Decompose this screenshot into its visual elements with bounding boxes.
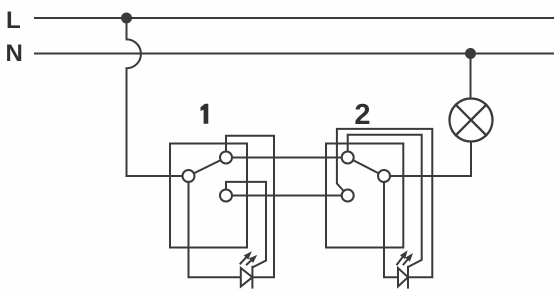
wire S2 lower terminal loop to LED D2 cathode <box>337 129 432 277</box>
label 1 (switch 1) <box>201 104 209 124</box>
LED D1 cathode bar <box>251 267 253 288</box>
junction on L line <box>121 13 132 24</box>
wire S1 upper terminal loop to LED D1 cathode <box>226 136 274 277</box>
switch S2 lever <box>353 160 379 173</box>
wire L line <box>35 17 553 19</box>
switch S1 upper terminal <box>220 152 232 164</box>
svg-text:L: L <box>6 7 21 34</box>
wire lamp to S2 common <box>390 142 471 177</box>
junction on N line <box>465 48 476 59</box>
LED D1 triangle <box>241 268 253 287</box>
wire S1 common to LED D1 anode <box>189 182 240 277</box>
switch S2 body <box>326 144 403 248</box>
svg-text:N: N <box>6 40 23 67</box>
svg-text:2: 2 <box>354 99 370 131</box>
LED D2 cathode bar <box>407 267 409 288</box>
wire L feed down with hop over N to S1 common <box>127 18 183 176</box>
switch S2 common terminal <box>378 170 390 182</box>
LED D1 emission arrow a <box>240 251 251 263</box>
switch S2 upper terminal <box>342 152 354 164</box>
lamp E1 cross stroke b <box>456 105 486 135</box>
switch S1 lower terminal <box>220 190 232 202</box>
LED D2 emission arrow a <box>397 250 408 264</box>
LED D2 emission arrow b <box>404 253 414 264</box>
LED D1 emission arrow b <box>247 255 257 265</box>
LED D2 triangle <box>398 268 408 287</box>
switch S1 body <box>170 144 247 248</box>
lamp E1 cross stroke a <box>456 105 486 135</box>
wire traveller upper S1 to S2 <box>232 157 342 159</box>
wire N junction down to lamp <box>470 59 472 99</box>
lamp E1 circle <box>450 99 493 142</box>
wire traveller lower S1 to S2 <box>232 195 342 197</box>
wire N line <box>35 53 553 55</box>
switch S1 lever <box>194 160 221 173</box>
switch S2 lower terminal <box>342 190 354 202</box>
wire S1 lower terminal loop to LED D1 cathode (diagonal) <box>226 182 266 267</box>
wire S2 upper terminal loop to LED D2 cathode (diagonal) <box>348 135 422 267</box>
switch S1 common terminal <box>183 170 195 182</box>
wire S2 common to LED D2 anode <box>384 182 397 277</box>
